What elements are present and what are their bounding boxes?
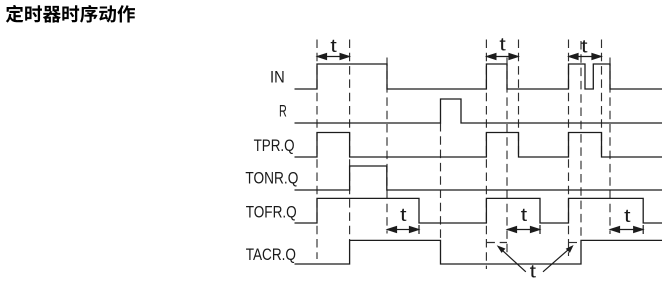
dashed accumulate segment 1 on TACR.Q (y=242.5) (486, 242, 507, 244)
dimension arrow t pulse 2 (486.4 to 518.5) (487, 54, 518, 60)
svg-text:TONR.Q: TONR.Q (245, 170, 298, 188)
dimension arrow t TOFR delay 3 (610 to 643.2) (611, 227, 643, 233)
title 定时器时序动作 (6, 5, 135, 23)
dimension arrow t TOFR delay 2 (507 to 540) (508, 227, 540, 233)
arrow end tick at x=540 (539, 225, 541, 234)
guide dashed line at R rise (x=440.5) (440, 123, 442, 240)
waveform TONR.Q (295, 166, 663, 190)
dimension arrow t pulse 1 (317 to 349.6) (318, 54, 350, 60)
svg-text:t: t (521, 205, 527, 225)
svg-text:t: t (330, 36, 336, 56)
svg-text:TACR.Q: TACR.Q (246, 246, 296, 264)
arrow end tick at x=419 (418, 225, 420, 234)
guide dashed line at IN rise 2 (x=486.4) (485, 40, 487, 270)
svg-text:t: t (581, 36, 587, 56)
waveform IN (295, 64, 663, 89)
dimension arrow t pulse 3 (568.5 to 601.5) (569, 54, 601, 60)
svg-text:t: t (624, 206, 630, 226)
waveform TOFR.Q (295, 198, 663, 223)
waveform TACR.Q (295, 240, 663, 264)
guide dashed line at t after rise 1 (x=349.6) (349, 40, 351, 241)
guide dashed line at IN rise 1 (x=317) (316, 40, 318, 260)
svg-text:t: t (400, 205, 406, 225)
pointer arrow from t to accumulate segment 2 (543, 245, 574, 272)
guide dashed line at IN fall 1 (x=387) (386, 58, 388, 234)
guide dashed line at IN fall 2 (x=507) (506, 58, 508, 254)
guide dashed line at IN rise 3 (x=568.5) (568, 40, 570, 257)
waveform TPR.Q (295, 133, 663, 158)
svg-text:t: t (499, 35, 505, 55)
guide dashed line at TACR.Q set (x=581) (580, 41, 582, 240)
arrow end tick at x=643.2 (642, 225, 644, 234)
waveform R (295, 99, 663, 123)
pointer arrow from t to accumulate segment 1 (497, 245, 526, 272)
svg-text:IN: IN (270, 69, 285, 87)
guide dashed line at t after rise 3 (x=601.5) (601, 40, 603, 158)
svg-text:t: t (530, 262, 536, 281)
guide dashed line at t after rise 2 (x=518.5) (518, 40, 520, 158)
dashed accumulate segment 2 on TACR.Q (y=242.5) (569, 242, 582, 244)
svg-text:TPR.Q: TPR.Q (254, 137, 295, 155)
svg-text:R: R (279, 103, 287, 121)
dimension arrow t TOFR delay 1 (387 to 419) (388, 227, 419, 233)
guide dashed line at IN fall 3 (x=610) (609, 58, 611, 235)
svg-text:TOFR.Q: TOFR.Q (246, 203, 297, 221)
